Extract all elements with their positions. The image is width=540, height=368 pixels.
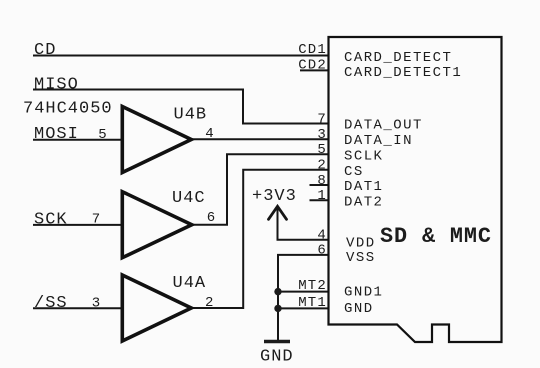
svg-text:4: 4 [205, 126, 215, 142]
svg-text:3: 3 [92, 296, 102, 312]
svg-text:7: 7 [92, 212, 102, 228]
svg-text:MT2: MT2 [298, 278, 327, 294]
svg-text:MISO: MISO [34, 76, 79, 95]
svg-text:U4B: U4B [174, 106, 208, 125]
svg-text:2: 2 [317, 158, 327, 174]
svg-text:8: 8 [317, 173, 327, 189]
svg-text:DATA_IN: DATA_IN [344, 133, 413, 149]
svg-text:+3V3: +3V3 [252, 187, 297, 206]
svg-text:DATA_OUT: DATA_OUT [344, 118, 423, 134]
svg-text:U4A: U4A [173, 274, 207, 293]
svg-text:CD2: CD2 [298, 58, 327, 74]
svg-text:2: 2 [205, 295, 215, 311]
svg-text:DAT2: DAT2 [344, 194, 383, 210]
svg-text:VSS: VSS [346, 250, 376, 266]
svg-text:GND: GND [344, 301, 374, 317]
svg-text:/SS: /SS [34, 294, 68, 313]
svg-text:GND1: GND1 [344, 285, 383, 301]
svg-text:MT1: MT1 [298, 295, 327, 311]
svg-text:CD1: CD1 [298, 42, 327, 58]
svg-text:74HC4050: 74HC4050 [23, 100, 113, 119]
svg-text:U4C: U4C [172, 189, 206, 208]
svg-text:CD: CD [34, 41, 56, 60]
svg-text:5: 5 [317, 142, 327, 158]
svg-text:6: 6 [207, 210, 217, 226]
svg-text:5: 5 [98, 127, 108, 143]
svg-text:7: 7 [317, 111, 327, 127]
svg-text:SCK: SCK [34, 210, 68, 229]
svg-text:CARD_DETECT1: CARD_DETECT1 [344, 65, 462, 81]
svg-text:DAT1: DAT1 [344, 179, 383, 195]
svg-text:SD & MMC: SD & MMC [380, 224, 492, 249]
svg-text:SCLK: SCLK [344, 148, 383, 164]
svg-text:GND: GND [260, 348, 294, 367]
svg-text:3: 3 [317, 127, 327, 143]
svg-text:4: 4 [317, 227, 327, 243]
svg-text:CARD_DETECT: CARD_DETECT [344, 50, 452, 66]
svg-text:6: 6 [317, 243, 327, 259]
svg-text:CS: CS [344, 164, 364, 180]
svg-text:MOSI: MOSI [34, 125, 79, 144]
svg-text:1: 1 [317, 188, 327, 204]
